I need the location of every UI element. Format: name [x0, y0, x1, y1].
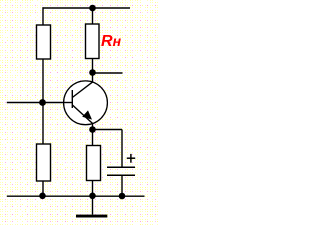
resistor R1 (upper bias divider)	[37, 25, 51, 59]
ground	[76, 196, 107, 218]
wire from RH to collector node	[92, 59, 94, 83]
label plus polarity	[127, 154, 135, 163]
svg-text:Rн: Rн	[101, 33, 122, 50]
wire from R2 to bottom rail	[42, 181, 44, 196]
node R2 to rail junction	[39, 193, 46, 200]
node collector junction	[89, 69, 96, 76]
resistor R2 (lower bias divider)	[37, 144, 51, 181]
node emitter junction	[89, 126, 96, 133]
wire collector output lead	[93, 72, 123, 74]
node supply junction	[89, 5, 96, 12]
wire from top rail down to R1	[42, 7, 44, 25]
wire from R3 to bottom rail	[92, 181, 94, 197]
resistor RH (load)	[86, 24, 100, 59]
wire from supply node down to RH	[92, 8, 94, 24]
node base junction	[39, 99, 46, 106]
wire bottom ground rail	[7, 195, 145, 197]
wire top supply rail	[43, 7, 131, 9]
node R3 to rail junction	[89, 193, 96, 200]
transistor Q1 (NPN)	[64, 81, 108, 125]
wire from R1 down to base node	[42, 59, 44, 103]
wire emitter node to capacitor	[93, 130, 123, 168]
wire input lead to base	[7, 102, 73, 104]
resistor R3 (emitter)	[87, 146, 101, 181]
wire from base node down to R2	[42, 103, 44, 145]
wire emitter down to R3	[92, 123, 94, 145]
node capacitor to rail junction	[119, 193, 126, 200]
capacitor C1 (electrolytic bypass)	[107, 167, 135, 175]
label RH value	[101, 33, 122, 50]
wire from capacitor to bottom rail	[121, 175, 123, 196]
